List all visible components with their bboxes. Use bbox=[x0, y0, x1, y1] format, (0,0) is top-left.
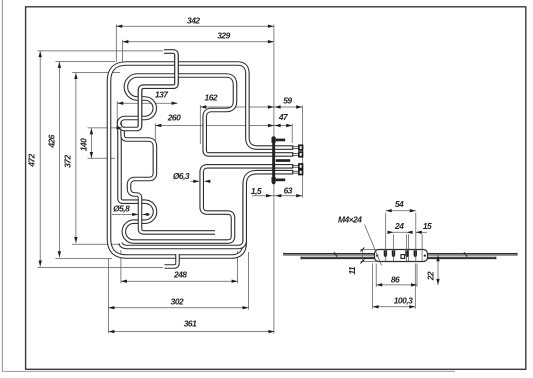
terminal squares bbox=[299, 145, 303, 174]
ext line 342 left bbox=[115, 24, 117, 62]
bracket studs (teardrops) bbox=[384, 250, 417, 257]
svg-text:302: 302 bbox=[171, 296, 184, 306]
dim line 342 bbox=[116, 25, 274, 27]
137 bbox=[117, 102, 123, 105]
svg-text:86: 86 bbox=[391, 275, 400, 285]
ext line flange projection bbox=[273, 24, 275, 333]
361 bbox=[108, 330, 114, 333]
ext line 329 left bbox=[121, 40, 123, 62]
svg-text:361: 361 bbox=[184, 319, 197, 329]
47 bbox=[275, 124, 281, 127]
svg-text:329: 329 bbox=[217, 31, 230, 41]
stud middle bbox=[276, 159, 291, 162]
dim line 472 bbox=[39, 51, 41, 266]
svg-text:472: 472 bbox=[27, 153, 37, 167]
svg-text:372: 372 bbox=[63, 155, 73, 168]
dim line 361 bbox=[108, 331, 274, 333]
dia 5.8 bbox=[132, 213, 138, 216]
wire V1 and top hook overdraw bbox=[137, 52, 177, 130]
svg-text:248: 248 bbox=[173, 269, 187, 279]
leader dia 5.8 bbox=[112, 213, 138, 215]
dia 6.3 bbox=[193, 180, 199, 183]
wire inner bottom arm bbox=[121, 186, 245, 247]
bracket body bbox=[375, 250, 428, 262]
bracket square bbox=[401, 255, 405, 259]
329 bbox=[122, 40, 128, 43]
stud top bbox=[272, 137, 276, 143]
342 bbox=[116, 25, 122, 28]
flange bar bbox=[272, 136, 275, 184]
svg-text:426: 426 bbox=[47, 134, 57, 148]
1,5 bbox=[266, 194, 272, 197]
86 bbox=[376, 283, 382, 286]
svg-text:M4×24: M4×24 bbox=[338, 215, 362, 225]
162 bbox=[200, 105, 206, 108]
22 bbox=[437, 255, 439, 285]
dim line 137 bbox=[117, 102, 177, 104]
ext lines left dims bbox=[38, 50, 164, 52]
tube end caps bbox=[292, 145, 294, 174]
svg-text:47: 47 bbox=[278, 112, 288, 122]
54 bbox=[386, 209, 392, 212]
wire V3 jog chain bbox=[123, 127, 215, 233]
svg-text:11: 11 bbox=[347, 266, 357, 275]
svg-text:342: 342 bbox=[187, 16, 200, 26]
22 bbox=[436, 255, 439, 261]
svg-text:59: 59 bbox=[283, 96, 292, 106]
svg-text:22: 22 bbox=[426, 271, 436, 281]
stud bottom bbox=[272, 177, 276, 183]
11 slashes bbox=[360, 248, 364, 264]
svg-text:137: 137 bbox=[155, 90, 168, 100]
page edge left bbox=[1, 0, 3, 372]
24 outside arrows bbox=[388, 231, 394, 234]
break marks bbox=[334, 252, 337, 256]
59 bbox=[275, 105, 281, 108]
248 bbox=[121, 280, 127, 283]
leader dia 6.3 bbox=[191, 180, 200, 182]
bracket dots bbox=[376, 255, 378, 257]
long tube lines bbox=[284, 252, 517, 259]
426 bbox=[58, 62, 61, 68]
svg-text:260: 260 bbox=[167, 113, 181, 123]
140 bbox=[90, 128, 93, 134]
472 bbox=[39, 51, 42, 57]
dim line 260+47 bbox=[155, 125, 292, 127]
11 bbox=[361, 250, 363, 262]
bottom hook bbox=[165, 254, 178, 267]
M4x24 leader bbox=[365, 225, 382, 266]
svg-text:24: 24 bbox=[394, 221, 404, 231]
dim line 162+59 bbox=[200, 106, 302, 108]
svg-text:63: 63 bbox=[284, 186, 293, 196]
page edge bottom bbox=[2, 370, 455, 372]
svg-text:1,5: 1,5 bbox=[251, 186, 262, 196]
15 bbox=[416, 231, 422, 234]
wire circuit C V2-D2-bottom-pin3 bbox=[120, 120, 293, 242]
dim line 329 bbox=[122, 41, 274, 43]
63 bbox=[296, 194, 302, 197]
86 bbox=[376, 284, 417, 286]
100,3 bbox=[373, 305, 379, 308]
svg-text:15: 15 bbox=[423, 221, 432, 231]
svg-text:162: 162 bbox=[205, 92, 218, 102]
dim line 372 bbox=[75, 73, 77, 243]
dim line 426 bbox=[58, 62, 60, 257]
wire circuit B pin2-serpentine bbox=[119, 52, 293, 155]
svg-text:54: 54 bbox=[395, 199, 404, 209]
dim line 140 bbox=[90, 128, 92, 158]
372 bbox=[74, 73, 77, 79]
100,3 bbox=[373, 306, 416, 308]
svg-text:Ø6,3: Ø6,3 bbox=[173, 171, 190, 181]
260 bbox=[155, 124, 161, 127]
svg-text:140: 140 bbox=[79, 138, 89, 151]
dim line 248 bbox=[121, 280, 238, 282]
302 bbox=[108, 306, 114, 309]
dim line 302 bbox=[108, 307, 248, 309]
side view dims thin lines bbox=[360, 211, 438, 309]
svg-text:Ø5,8: Ø5,8 bbox=[113, 203, 130, 213]
svg-text:100,3: 100,3 bbox=[394, 296, 413, 306]
pins (thin rods after tube end) bbox=[293, 148, 300, 173]
wire outer loop pin1..pin4 bbox=[109, 64, 293, 257]
